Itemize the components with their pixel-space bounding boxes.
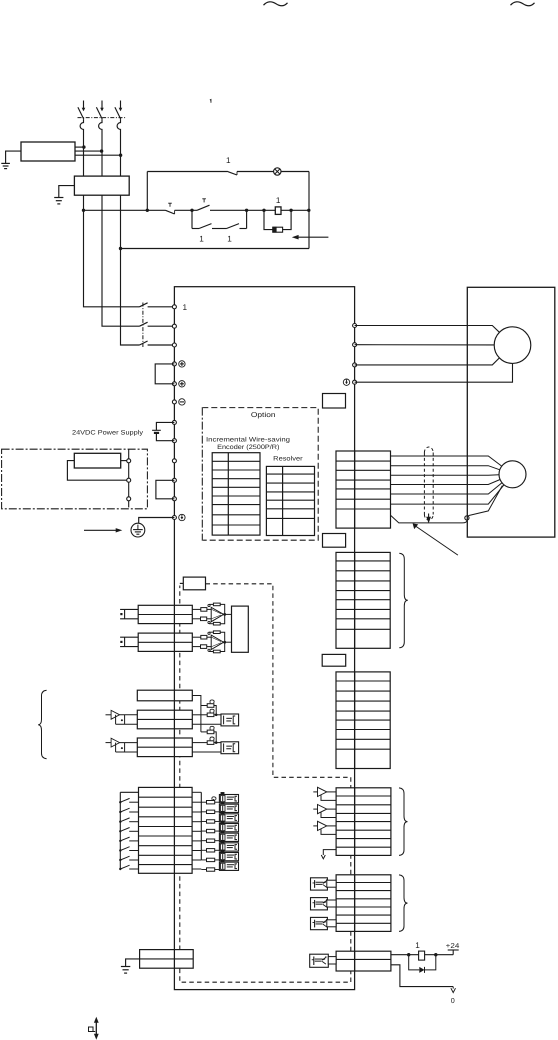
- digital input photocoupler 7: [219, 852, 238, 860]
- self-hold contact 2 (NO): [227, 224, 240, 229]
- wire to coil: [210, 209, 275, 211]
- self-hold wire c: [240, 228, 247, 230]
- feedback resistor top: [209, 603, 213, 605]
- pulse lower wire: [192, 723, 221, 725]
- self-hold contact 1 (NO): [199, 224, 212, 229]
- svg-text:1: 1: [415, 941, 420, 950]
- digital input +24 vertical (right): [200, 792, 202, 860]
- magnetic contactor main contact 1: [140, 303, 173, 307]
- common pull-up wire: [192, 696, 201, 732]
- resolver pin table: [266, 466, 314, 535]
- ground symbol G3: [121, 966, 130, 968]
- feedback resistor bottom: [209, 623, 213, 625]
- line driver output buffer 1: [313, 787, 336, 800]
- phase L2 wire: [102, 195, 140, 326]
- lamp line wire: [147, 171, 227, 173]
- input resistor b: [192, 646, 200, 648]
- digital input resistor 3: [201, 820, 206, 822]
- pulse twisted pair: [120, 714, 138, 716]
- output photocoupler 3: [311, 917, 328, 929]
- encoder circle: [499, 461, 526, 488]
- digital input resistor 5: [201, 840, 206, 842]
- svg-text:24VDC Power Supply: 24VDC Power Supply: [72, 430, 144, 437]
- encoder connector pin table CN2: [336, 451, 391, 528]
- ground symbol G1: [1, 162, 10, 164]
- digital input photocoupler 6: [219, 843, 238, 851]
- digital input switch 8: [119, 865, 138, 870]
- amplifier ground wire: [139, 518, 175, 524]
- P2 plus symbol: [179, 381, 185, 387]
- pilot lamp: [274, 168, 281, 175]
- pulse input rows box: [137, 710, 192, 729]
- hook wire from CN3 to dashed path: [180, 582, 184, 584]
- input terminal rows box: [138, 633, 192, 651]
- cable shield dashed capsule: [424, 447, 433, 520]
- motor W wire: [355, 358, 500, 365]
- noise filter ground wire: [59, 186, 75, 198]
- digital input switch 7: [119, 856, 138, 861]
- Option dashed box: [202, 408, 318, 541]
- N minus symbol: [179, 399, 185, 405]
- input resistor a: [192, 636, 201, 638]
- phase L3 wire: [121, 195, 140, 345]
- svg-text:1: 1: [276, 196, 281, 205]
- digital input switch 6: [119, 847, 138, 852]
- pulse lower wire: [192, 751, 221, 753]
- control tap on L1: [82, 209, 85, 212]
- digital input resistor 8: [201, 869, 206, 871]
- svg-text:Incremental Wire-saving: Incremental Wire-saving: [206, 436, 291, 443]
- svg-text:1: 1: [227, 235, 232, 244]
- svg-text:1: 1: [226, 156, 231, 165]
- digital input resistor 7: [201, 859, 206, 861]
- digital input switch 3: [119, 818, 138, 823]
- digital input photocoupler 2: [219, 804, 238, 812]
- output coupler stub 1: [327, 880, 336, 887]
- page joint square mark: [89, 1027, 94, 1032]
- digital input photocoupler 1: [219, 795, 238, 803]
- surge absorber box: [21, 142, 75, 161]
- digital input resistor 6: [201, 849, 206, 851]
- series resistor with curl: [192, 714, 207, 716]
- output coupler stub 3: [327, 920, 336, 927]
- 0V return wire: [391, 965, 453, 987]
- receiver output wire: [224, 641, 232, 643]
- digital input switch 1: [119, 798, 138, 803]
- self-hold wire b: [212, 228, 227, 230]
- output coupler stub 2: [327, 900, 336, 907]
- pulse photocoupler: [221, 742, 239, 754]
- output photocoupler 1: [311, 878, 328, 890]
- page joint double arrow: [95, 1021, 97, 1036]
- control right rail: [308, 172, 310, 249]
- P-P jumper: [155, 364, 174, 384]
- lamp branch riser: [146, 172, 148, 211]
- brace for open collector output table: [399, 875, 408, 932]
- encoder fan wires: [467, 456, 504, 516]
- self-holding branch down: [191, 210, 193, 228]
- digital input right stubs: [192, 792, 201, 869]
- surge suppressor on coil: [273, 227, 283, 232]
- wire coil to rail: [281, 209, 309, 211]
- surge absorber wires to phases: [75, 146, 84, 148]
- annotation arrow to suppressor: [298, 236, 329, 238]
- digital input resistor 4: [201, 830, 206, 832]
- motor PE symbol: [343, 379, 349, 385]
- svg-text:Resolver: Resolver: [273, 456, 303, 463]
- +24V terminal: [452, 950, 454, 955]
- connector designation box CNB: [323, 394, 346, 409]
- encoder signal wires: [391, 456, 468, 504]
- contactor mechanical link (dash-dot): [142, 303, 144, 348]
- stray mark: [210, 99, 212, 103]
- page torn-edge tilde left: [264, 2, 288, 6]
- input terminal rows box: [138, 605, 192, 623]
- motor V wire: [355, 344, 495, 346]
- self-hold wire a: [192, 228, 199, 230]
- motor PE wire: [355, 363, 513, 382]
- flywheel diode branch: [409, 955, 420, 970]
- digital input connector box: [139, 787, 193, 873]
- feedback resistor bottom: [209, 651, 213, 653]
- battery for absolute encoder: [156, 422, 174, 430]
- control circuit main row wire: [84, 209, 166, 211]
- receiver output wire: [224, 613, 232, 615]
- control bottom rail: [121, 248, 310, 250]
- monitor output pin table: [336, 552, 390, 648]
- digital input photocoupler 4: [219, 823, 238, 831]
- pulse input amp triangle: [106, 714, 112, 716]
- encoder shield wire: [391, 515, 467, 523]
- connector designation box CN1: [322, 654, 346, 666]
- receiver op-amp: [211, 635, 223, 649]
- open collector output table: [336, 875, 391, 932]
- input resistor b: [192, 618, 200, 620]
- servo amplifier box: [174, 287, 354, 990]
- svg-text:0: 0: [451, 996, 455, 1005]
- circuit breaker MCCB pole 3: [115, 101, 122, 177]
- contactor coil MC: [275, 207, 281, 215]
- pulse photocoupler: [221, 714, 239, 726]
- output photocoupler 2: [311, 898, 328, 910]
- circuit breaker MCCB pole 1: [78, 101, 85, 177]
- shield terminal circle on motor: [465, 516, 469, 520]
- incremental encoder pin table: [212, 453, 260, 535]
- connector designation box CN3: [183, 577, 205, 590]
- magnetic contactor main contact 3: [140, 341, 173, 345]
- annotation diagonal arrow to shield: [415, 526, 458, 556]
- input resistor a: [192, 608, 201, 610]
- annotation arrow to earth: [84, 529, 117, 531]
- amplifier right terminals: [353, 324, 357, 385]
- digital input resistor 1: [201, 801, 206, 803]
- surge absorber ground wire: [6, 151, 21, 163]
- magnetic contactor main contact 2: [140, 322, 173, 326]
- digital input switch 4: [119, 828, 138, 833]
- digital input common top wire: [120, 791, 138, 793]
- left brace for pulse inputs: [38, 690, 46, 759]
- svg-text:1: 1: [183, 303, 188, 312]
- brace for monitor output table: [399, 553, 408, 648]
- regen resistor wire to P: [121, 460, 127, 462]
- digital input photocoupler 3: [219, 814, 238, 822]
- series resistor with curl: [192, 742, 207, 744]
- digital input photocoupler 8: [219, 862, 238, 870]
- PE terminal symbol: [179, 514, 185, 520]
- line driver output buffer 2: [313, 805, 336, 818]
- protective earth circle symbol: [131, 523, 145, 537]
- ON pushbutton (NO): [197, 199, 210, 211]
- connector designation box CN2: [323, 534, 346, 548]
- svg-text:+24: +24: [446, 943, 460, 950]
- self-hold branch up: [246, 210, 248, 228]
- receiver block box: [232, 606, 249, 652]
- P1 plus symbol: [179, 361, 185, 367]
- servo motor box: [467, 287, 555, 537]
- ground symbol G2: [54, 197, 63, 199]
- circuit breaker MCCB pole 2: [96, 101, 103, 177]
- alarm coupler stub: [328, 957, 336, 964]
- digital input switch 2: [119, 808, 138, 813]
- receiver op-amp: [211, 607, 223, 621]
- lamp line wire 3: [281, 171, 309, 173]
- line driver output table: [336, 788, 391, 856]
- digital input switch 5: [119, 837, 138, 842]
- common terminal row box: [137, 690, 192, 701]
- feedback resistor top: [209, 631, 213, 633]
- digital input resistor 2: [201, 811, 206, 813]
- wire to ON button: [175, 209, 197, 211]
- suppressor branch up: [283, 210, 292, 229]
- P-D jumper: [156, 480, 175, 499]
- bottom ground wire: [126, 959, 140, 966]
- bottom left connector box: [140, 950, 194, 969]
- external regenerative resistor unit dash-dot box: [2, 449, 148, 509]
- alarm output photocoupler: [310, 954, 329, 967]
- signal ground wire from output table: [323, 850, 336, 855]
- pull-up resistor with curl: [201, 705, 207, 707]
- motor U wire: [355, 326, 500, 333]
- MCCB mechanical link (dash-dot): [78, 117, 127, 119]
- pull-up resistor with curl: [201, 731, 207, 733]
- phase L1 wire: [84, 195, 140, 307]
- motor winding circle: [494, 327, 531, 364]
- svg-text:Option: Option: [251, 411, 276, 419]
- 0V open arrow: [451, 988, 456, 992]
- digital input photocoupler 5: [219, 833, 238, 841]
- current limit resistor: [419, 951, 425, 960]
- NC contact in lamp line: [227, 171, 237, 175]
- hop curl on DI row1: [212, 797, 216, 800]
- pulse twisted pair: [120, 742, 138, 744]
- +24V wire: [391, 954, 453, 956]
- pulse input rows box: [137, 738, 192, 757]
- shield connection arrow: [428, 514, 430, 518]
- regenerative resistor: [74, 453, 120, 468]
- regen unit internal vertical: [128, 449, 130, 507]
- surge suppressor branch: [264, 210, 273, 229]
- dashed signal path loop: [180, 584, 351, 982]
- regen resistor loop wire: [67, 461, 126, 481]
- amplifier left terminals: [172, 305, 176, 520]
- I/O pin table 2: [336, 672, 390, 769]
- svg-text:1: 1: [199, 235, 204, 244]
- page torn-edge tilde right: [511, 2, 535, 6]
- lamp line wire 2: [237, 171, 274, 173]
- bottom right connector box: [336, 951, 391, 971]
- noise filter box: [74, 176, 129, 195]
- pulse input amp triangle: [106, 742, 112, 744]
- svg-text:Encoder (2500P/R): Encoder (2500P/R): [217, 444, 279, 451]
- line driver output buffer 3: [313, 821, 336, 834]
- regen unit terminal circles: [127, 459, 131, 463]
- brace for line driver output table: [399, 788, 408, 856]
- twisted pair wires: [120, 609, 138, 618]
- OFF pushbutton (NC): [166, 203, 175, 214]
- twisted pair wires: [120, 637, 138, 646]
- digital input common vertical (left): [119, 792, 121, 869]
